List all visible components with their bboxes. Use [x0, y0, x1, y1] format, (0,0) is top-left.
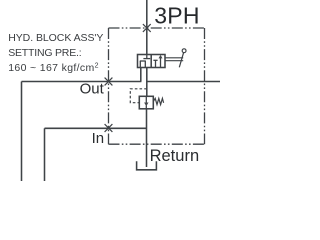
svg-text:Return: Return	[150, 147, 200, 165]
relief valve RV1 spring	[153, 98, 163, 104]
valve V1 manual lever operator	[165, 49, 186, 68]
svg-text:3PH: 3PH	[154, 3, 200, 29]
wire supply line from 3PH down to valve	[146, 0, 148, 55]
wire out branch to right edge	[147, 81, 220, 83]
svg-text:In: In	[92, 130, 105, 147]
valve V1 body (2-position, lever operated)	[138, 55, 166, 68]
enclosure boundary top edge (dash-dot)	[109, 27, 205, 29]
wire Out line vertical to bottom	[21, 82, 23, 182]
enclosure boundary bottom edge (dash-dot)	[109, 143, 205, 145]
wire relief valve down to tank	[146, 109, 148, 167]
valve V1 left position: blocked bottom port	[140, 61, 146, 68]
valve V1 right position: blocked stub	[153, 60, 157, 67]
wire In line horizontal	[45, 127, 147, 129]
svg-text:160 ~ 167 kgf/cm2: 160 ~ 167 kgf/cm2	[8, 62, 99, 74]
svg-text:SETTING PRE.:: SETTING PRE.:	[8, 47, 81, 59]
wire In line vertical to bottom	[44, 128, 46, 181]
relief valve RV1 pilot line (dashed)	[130, 89, 147, 103]
crossing mark X at Out/boundary	[105, 78, 113, 86]
wire Out line horizontal	[22, 81, 142, 83]
crossing mark X at supply/boundary	[143, 24, 151, 32]
crossing mark X at In/boundary	[105, 124, 113, 132]
tank T1	[137, 161, 157, 170]
svg-text:Out: Out	[80, 80, 105, 97]
note text: hydraulic block assembly setting pressure	[8, 32, 103, 74]
relief valve RV1 body	[139, 96, 153, 109]
wire valve left port down to Out corner	[140, 68, 142, 82]
svg-text:HYD. BLOCK ASS'Y: HYD. BLOCK ASS'Y	[8, 32, 103, 44]
relief valve RV1 flow arrow down	[144, 96, 148, 109]
enclosure boundary left edge (dash-dot)	[108, 28, 110, 144]
valve V1 left position: blocked top port	[143, 55, 150, 59]
wire supply from valve down to relief valve	[146, 68, 148, 97]
enclosure boundary right edge (dash-dot)	[204, 28, 206, 144]
valve V1 right position: flow arrow up	[159, 55, 163, 68]
